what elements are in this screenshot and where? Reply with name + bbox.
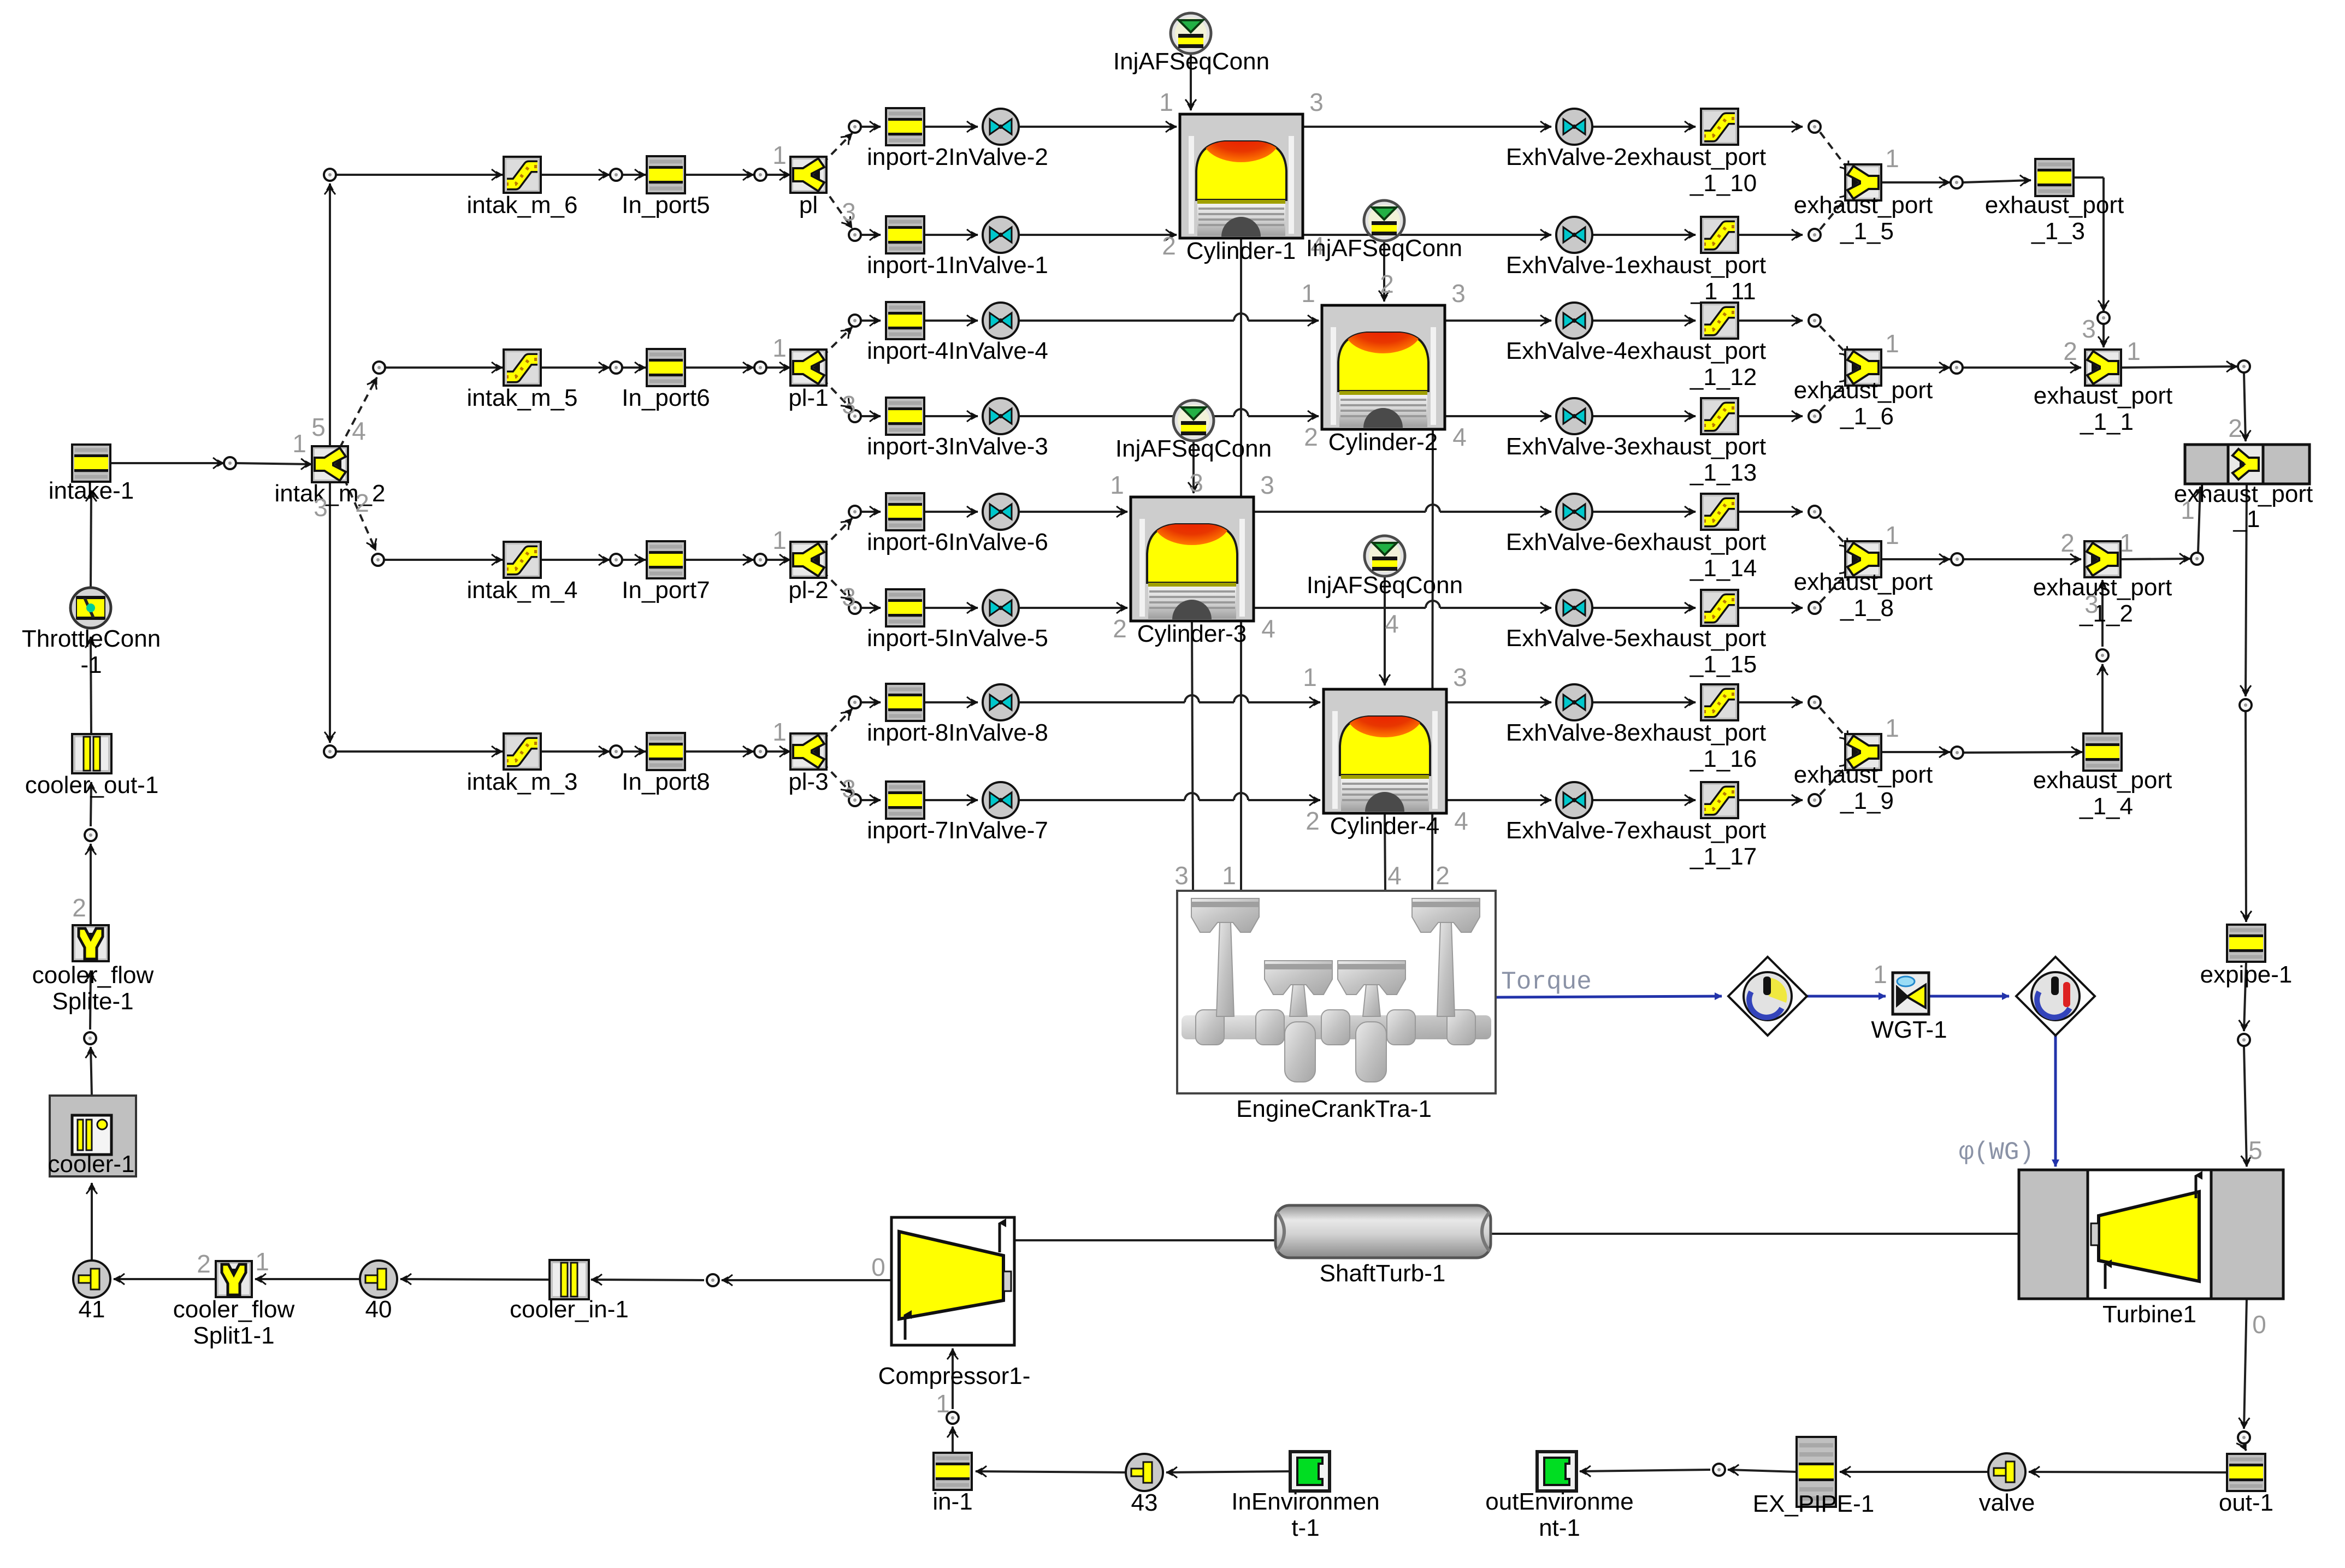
svg-text:exhaust_port: exhaust_port	[1794, 377, 1933, 404]
port number 1 exhaust_port_1_9	[1885, 714, 1899, 742]
wire InValve-6 to Cylinder-3	[1019, 511, 1127, 513]
svg-text:Splite-1: Splite-1	[52, 988, 133, 1015]
valve ExhValve-5	[1506, 590, 1766, 652]
wire node to Y top	[1820, 517, 1851, 549]
wire node to Y top	[1820, 708, 1851, 742]
wire node to In_port8	[623, 750, 646, 753]
svg-text:nt-1: nt-1	[1539, 1514, 1580, 1541]
svg-text:4: 4	[1387, 861, 1402, 890]
cylinder Cylinder-3	[1131, 497, 1254, 647]
wire ExhValve-1 to exhaust_port_1_11	[1592, 234, 1696, 236]
port number 3 exhaust_port_1_1	[2082, 315, 2096, 343]
injector InjAFSeqConn-4	[1307, 536, 1463, 638]
svg-text:3: 3	[1309, 88, 1324, 116]
svg-text:0: 0	[871, 1253, 885, 1281]
valve InValve-1	[983, 217, 1019, 253]
wire intak_m_3 to node	[541, 750, 610, 753]
wire Cylinder-4 to ExhValve-8	[1446, 701, 1551, 703]
wire inport-2 to InValve-2	[924, 126, 978, 128]
node row2 start	[373, 362, 385, 374]
wire 43 to in-1	[976, 1471, 1126, 1472]
svg-text:_1_14: _1_14	[1690, 555, 1757, 582]
wire Cylinder-1 to ExhValve-2	[1303, 126, 1551, 128]
wire Compressor1 to ShaftTurb-1	[1014, 1239, 1278, 1241]
svg-text:3: 3	[1451, 279, 1466, 307]
pipe In_port6	[622, 349, 710, 411]
svg-text:inport-8InValve-8: inport-8InValve-8	[867, 719, 1048, 746]
node compressor inlet	[947, 1412, 959, 1424]
svg-text:EX_PIPE-1: EX_PIPE-1	[1753, 1490, 1875, 1517]
svg-text:_1_15: _1_15	[1690, 651, 1757, 678]
svg-text:1: 1	[1110, 471, 1124, 499]
svg-text:_1: _1	[2233, 506, 2260, 532]
wire node up to Compressor1	[952, 1348, 954, 1409]
label Torque	[1501, 968, 1592, 996]
pipe inport-5	[867, 589, 1048, 652]
node runner out	[1809, 696, 1821, 708]
svg-text:cooler_flow: cooler_flow	[32, 962, 154, 989]
wire Cylinder-2 to ExhValve-4	[1445, 319, 1551, 322]
plug 41	[73, 1261, 110, 1323]
wire hump mask	[1185, 798, 1199, 803]
wire pl-2 to node up	[822, 518, 852, 549]
wire node to exhaust_port_1_1 port2	[1963, 366, 2081, 369]
wire cooler-1 to node 1901	[91, 1047, 92, 1096]
port number 1 exhaust_port_1_5	[1885, 144, 1899, 173]
wire hump mask	[1234, 414, 1248, 419]
port number 0 Compressor1	[871, 1253, 885, 1281]
svg-text:In_port7: In_port7	[622, 577, 710, 603]
wire node to inport-7	[861, 799, 881, 801]
svg-text:Cylinder-3: Cylinder-3	[1137, 620, 1247, 647]
flow-split pl-1	[788, 350, 828, 411]
flow-split cooler_flowSplit1-1	[173, 1261, 295, 1349]
node runner out	[1809, 410, 1821, 422]
svg-text:ExhValve-6exhaust_port: ExhValve-6exhaust_port	[1506, 529, 1766, 555]
svg-text:intak_m_4: intak_m_4	[466, 577, 577, 603]
wire pl to node down	[822, 186, 852, 228]
wire hump mask	[1234, 318, 1248, 323]
turbine Turbine1	[2019, 1170, 2283, 1328]
wire node to Y bottom	[1820, 762, 1851, 795]
wire out-1 to valve	[2029, 1472, 2226, 1472]
flow-merge exhaust_port_1_5	[1794, 164, 1933, 245]
wire ExhValve-8 to exhaust_port_1_16	[1592, 701, 1696, 703]
bent pipe exhaust_port_1_16	[1690, 684, 1757, 772]
valve ExhValve-2	[1506, 109, 1766, 170]
svg-text:2: 2	[1436, 861, 1450, 890]
wire intak_m_6 to node	[541, 174, 610, 176]
wire pl-2 to node down	[822, 571, 852, 601]
wire jump	[1426, 505, 1440, 512]
svg-text:5: 5	[311, 413, 326, 441]
node cooler_in/compressor	[707, 1274, 719, 1286]
wire cooler_out-1 to ThrottleConn-1	[91, 637, 91, 734]
svg-text:1: 1	[936, 1389, 950, 1418]
svg-text:-1: -1	[80, 652, 102, 678]
wire hump mask	[1234, 798, 1248, 803]
svg-text:intake-1: intake-1	[49, 477, 134, 504]
pipe EX_PIPE-1	[1753, 1437, 1875, 1517]
node expipe/turbine	[2238, 1034, 2250, 1046]
wire node to exhaust_port_1_1 port3	[2102, 324, 2105, 347]
wire exhaust_port_1_13 to node	[1738, 415, 1803, 417]
node manifold b	[754, 169, 766, 181]
node runner out	[1809, 121, 1821, 133]
injector InjAFSeqConn-1	[1113, 13, 1269, 75]
wire node to inport-2	[861, 126, 881, 128]
node runner in	[849, 410, 861, 422]
port numbers Cylinder-3	[1110, 471, 1275, 643]
wire InValve-1 to Cylinder-1	[1019, 234, 1177, 236]
pipe inport-4	[867, 302, 1048, 364]
wire ExhValve-2 to exhaust_port_1_10	[1592, 126, 1696, 128]
wire In_port7 to node	[686, 559, 754, 561]
svg-text:3: 3	[1174, 861, 1189, 890]
svg-text:_1_17: _1_17	[1690, 843, 1757, 870]
svg-text:2: 2	[197, 1250, 211, 1278]
wire Splite-1 to node 1529	[90, 844, 92, 925]
node Y5 out	[1951, 176, 1963, 188]
svg-text:ThrottleConn: ThrottleConn	[22, 625, 161, 652]
svg-text:1: 1	[255, 1247, 269, 1276]
bent pipe exhaust_port_1_13	[1690, 398, 1757, 486]
svg-text:ExhValve-4exhaust_port: ExhValve-4exhaust_port	[1506, 338, 1766, 364]
svg-text:4: 4	[1385, 610, 1399, 638]
wire node to In_port6	[623, 366, 646, 369]
svg-text:InjAFSeqConn: InjAFSeqConn	[1115, 435, 1272, 462]
svg-text:InEnvironmen: InEnvironmen	[1231, 1488, 1379, 1515]
svg-text:2: 2	[355, 489, 369, 517]
wire Torque blue	[1496, 996, 1722, 997]
wire node to pl-3	[767, 750, 790, 753]
svg-text:1: 1	[2181, 496, 2195, 524]
svg-text:inport-1InValve-1: inport-1InValve-1	[867, 252, 1048, 279]
svg-text:3: 3	[842, 774, 856, 803]
throttle ThrottleConn-1	[22, 588, 161, 678]
wire intak_m_5 to node	[541, 366, 610, 369]
wire Cylinder-2 to crank port2	[1432, 429, 1433, 891]
port number 1 exhaust_port_1_8	[1885, 521, 1899, 549]
wire node 1529 to cooler_out-1	[91, 782, 91, 826]
wire node to pl-2	[767, 559, 790, 561]
wire intak_m_2 to node row2	[340, 377, 377, 448]
svg-text:1: 1	[772, 334, 787, 362]
port number 5 Turbine1	[2248, 1136, 2263, 1164]
node runner out	[1809, 602, 1821, 614]
svg-text:_1_3: _1_3	[2031, 218, 2085, 245]
svg-text:ExhValve-3exhaust_port: ExhValve-3exhaust_port	[1506, 433, 1766, 460]
wire exhaust_port_1_2 to node	[2120, 559, 2190, 559]
bent pipe exhaust_port_1_12	[1690, 303, 1757, 390]
node runner out	[1809, 794, 1821, 806]
wire EX_PIPE-1 to node	[1728, 1470, 1797, 1472]
svg-text:ExhValve-8exhaust_port: ExhValve-8exhaust_port	[1506, 719, 1766, 746]
svg-text:intak_m_3: intak_m_3	[466, 768, 577, 795]
wire ExhValve-6 to exhaust_port_1_14	[1592, 511, 1696, 513]
wire exhaust_port_1 down to node	[2246, 483, 2247, 696]
svg-text:valve: valve	[1979, 1489, 2035, 1516]
svg-text:3: 3	[314, 493, 328, 522]
wire Y to node out	[1881, 366, 1950, 369]
pipe exhaust_port_1_4	[2033, 733, 2172, 820]
wire ExhValve-3 to exhaust_port_1_13	[1592, 415, 1696, 417]
node manifold b	[754, 362, 766, 374]
wire Y to node out	[1881, 558, 1950, 560]
node exhaust down	[2240, 699, 2252, 711]
injector InjAFSeqConn-3	[1115, 400, 1272, 497]
node manifold a	[610, 554, 622, 566]
wire node 421 to intak_m_2	[236, 463, 312, 464]
valve ExhValve-7	[1506, 782, 1766, 844]
pipe inport-6	[867, 493, 1048, 555]
pipe In_port8	[622, 733, 710, 795]
wire hump mask	[1234, 700, 1248, 705]
wastegate WGT-1	[1871, 973, 1947, 1043]
wire Compressor1 to node	[722, 1279, 891, 1281]
label port 2 Splite-1	[72, 894, 86, 922]
node exhaust_1_2 out	[2191, 553, 2203, 565]
wire Y to node out	[1881, 181, 1950, 184]
svg-text:inport-5InValve-5: inport-5InValve-5	[867, 625, 1048, 652]
wire node to Y bottom	[1820, 377, 1851, 411]
svg-text:1: 1	[1873, 960, 1887, 989]
node turbine out	[2238, 1431, 2250, 1443]
port numbers pl	[772, 141, 856, 226]
wire intak_m_2 to node row3	[344, 478, 376, 551]
wire In_port8 to node	[686, 750, 754, 753]
port number 1 WGT-1	[1873, 960, 1887, 989]
svg-text:4: 4	[1454, 807, 1468, 835]
svg-text:2: 2	[72, 894, 86, 922]
cylinder Cylinder-2	[1322, 305, 1445, 455]
wire jump	[1185, 793, 1199, 800]
svg-text:3: 3	[1453, 663, 1467, 691]
wire node to exhaust_port_1_2 port2	[1964, 558, 2081, 560]
wire Cylinder-4 to ExhValve-7	[1446, 799, 1551, 801]
wire jump	[1426, 601, 1440, 608]
svg-text:out-1: out-1	[2219, 1489, 2273, 1516]
bent pipe intak_m_6	[466, 157, 577, 218]
wire inport-6 to InValve-6	[924, 511, 978, 513]
wire InjAFSeqConn-1 to Cylinder-1	[1190, 54, 1192, 110]
svg-text:2: 2	[1113, 614, 1127, 643]
wire node to intak_m_3	[336, 750, 503, 753]
node runner in	[849, 506, 861, 518]
node Y9 out	[1951, 747, 1963, 759]
svg-text:In_port5: In_port5	[622, 192, 710, 218]
svg-text:exhaust_port: exhaust_port	[1794, 761, 1933, 788]
node intake-1/intak_m_2	[224, 457, 236, 469]
node cooler-1 top	[84, 1032, 96, 1044]
wire node to In_port7	[623, 559, 646, 561]
svg-text:3: 3	[1189, 469, 1203, 497]
svg-text:exhaust_port: exhaust_port	[1985, 192, 2124, 218]
port numbers pl-3	[772, 718, 856, 803]
svg-text:4: 4	[352, 417, 366, 445]
svg-text:_1_16: _1_16	[1690, 745, 1757, 772]
svg-text:_1_4: _1_4	[2079, 793, 2133, 820]
svg-text:Cylinder-2: Cylinder-2	[1328, 429, 1438, 455]
wire InjAFSeqConn-3 to Cylinder-3	[1192, 441, 1195, 493]
wire pl-1 to node down	[822, 378, 852, 410]
pipe in-1	[932, 1453, 972, 1515]
wire node to out-1	[2244, 1446, 2246, 1451]
pipe intake-1	[49, 445, 134, 504]
svg-text:3: 3	[2082, 315, 2096, 343]
port number 2 exhaust_port_1	[2228, 414, 2242, 442]
wire node to inport-6	[861, 511, 881, 513]
node runner out	[1809, 229, 1821, 241]
svg-text:1: 1	[2119, 529, 2134, 557]
svg-text:4: 4	[1452, 423, 1467, 451]
wire exhaust_port_1_11 to node	[1738, 234, 1803, 236]
pipe inport-8	[867, 684, 1048, 746]
wire hump mask	[1426, 606, 1440, 611]
wire Cylinder-3 to ExhValve-5	[1254, 607, 1551, 609]
cooler cooler-1	[48, 1096, 136, 1178]
plug valve	[1979, 1453, 2035, 1516]
svg-text:cooler_out-1: cooler_out-1	[25, 772, 159, 798]
environment outEnvironment-1	[1485, 1452, 1633, 1541]
plug 40	[360, 1261, 397, 1323]
svg-text:φ(WG): φ(WG)	[1959, 1138, 2034, 1167]
wire hump mask	[1185, 700, 1199, 705]
svg-text:exhaust_port: exhaust_port	[2033, 574, 2172, 601]
gauge diamond 1	[1728, 957, 1807, 1036]
pipe inport-2	[867, 108, 1048, 170]
svg-text:pl-1: pl-1	[788, 384, 828, 411]
wire cooler_flowSplit1-1 to 41	[114, 1278, 216, 1280]
port numbers EngineCrankTra-1	[1174, 861, 1450, 890]
bent pipe exhaust_port_1_15	[1690, 590, 1757, 678]
wire node 1901 to Splite-1	[90, 971, 91, 1029]
svg-text:Torque: Torque	[1501, 968, 1592, 996]
svg-text:pl: pl	[799, 192, 818, 218]
wire InValve-3 to Cylinder-2	[1019, 415, 1319, 417]
flow-merge exhaust_port_1_9	[1794, 734, 1933, 814]
svg-text:1: 1	[1303, 663, 1317, 691]
svg-text:_1_10: _1_10	[1690, 170, 1757, 197]
wire Y to node out	[1881, 751, 1950, 753]
wire node down to expipe-1	[2246, 712, 2246, 922]
port number 1 Compressor1	[936, 1389, 950, 1418]
wire exhaust_port_1_16 to node	[1738, 701, 1803, 703]
wire exhaust_port_1_15 to node	[1738, 607, 1803, 609]
wire InValve-2 to Cylinder-1	[1019, 126, 1177, 128]
injector InjAFSeqConn-2	[1306, 200, 1462, 298]
flow-merge exhaust_port_1_1	[2034, 350, 2172, 435]
svg-text:_1_12: _1_12	[1690, 364, 1757, 390]
pipe out-1	[2219, 1454, 2273, 1516]
wire inport-8 to InValve-8	[924, 701, 978, 703]
wire exhaust_port_1_4 up to node	[2101, 664, 2104, 733]
valve ExhValve-4	[1506, 303, 1766, 364]
svg-text:exhaust_port: exhaust_port	[2174, 481, 2313, 507]
wire jump	[1234, 313, 1248, 321]
svg-text:ExhValve-1exhaust_port: ExhValve-1exhaust_port	[1506, 252, 1766, 279]
wire InEnvironment to 43	[1166, 1471, 1290, 1472]
node manifold a	[610, 362, 622, 374]
svg-text:Split1-1: Split1-1	[193, 1322, 274, 1349]
svg-text:_1_5: _1_5	[1840, 218, 1894, 245]
cylinder Cylinder-4	[1324, 689, 1446, 839]
bent pipe exhaust_port_1_17	[1690, 782, 1757, 870]
wire node to Turbine1 port5	[2244, 1046, 2247, 1167]
wire expipe-1 to node	[2244, 962, 2246, 1031]
wire ExhValve-5 to exhaust_port_1_15	[1592, 607, 1696, 609]
node row1 start	[324, 169, 336, 181]
valve ExhValve-6	[1506, 494, 1766, 555]
svg-text:intak_m_5: intak_m_5	[466, 384, 577, 411]
node runner in	[849, 121, 861, 133]
wire node to Y bottom	[1820, 192, 1851, 229]
wire node to cooler_in-1	[591, 1280, 704, 1280]
port numbers pl-1	[772, 334, 856, 419]
cooler pipe cooler_out-1	[25, 734, 159, 798]
wire ShaftTurb-1 to Turbine1	[1488, 1233, 2019, 1235]
svg-text:outEnvironme: outEnvironme	[1485, 1488, 1633, 1515]
node runner out	[1809, 315, 1821, 327]
svg-text:2: 2	[2063, 337, 2077, 365]
wire node to intak_m_6	[336, 174, 503, 176]
wire inport-1 to InValve-1	[924, 234, 978, 236]
port numbers pl-2	[772, 526, 856, 611]
wire pl-1 to node up	[822, 327, 852, 357]
wire In_port5 to node	[686, 174, 754, 176]
wire 40 to cooler_flowSplit1-1	[255, 1278, 360, 1280]
svg-text:1: 1	[1885, 329, 1899, 358]
svg-text:41: 41	[79, 1296, 105, 1323]
wire exhaust_port_1_1 to node	[2122, 366, 2237, 368]
port number 1 exhaust_port_1_6	[1885, 329, 1899, 358]
wire node up to exhaust_port_1 port1	[2198, 487, 2200, 552]
node Y8 out	[1951, 553, 1963, 565]
bent pipe intak_m_3	[466, 733, 577, 795]
svg-text:exhaust_port: exhaust_port	[1794, 192, 1933, 218]
compressor Compressor1-	[878, 1217, 1031, 1389]
port numbers Cylinder-1	[1159, 88, 1325, 260]
svg-text:0: 0	[2252, 1310, 2266, 1339]
wire node to pl	[767, 174, 790, 176]
wire node to Y top	[1820, 326, 1851, 358]
svg-text:1: 1	[1301, 279, 1315, 307]
node manifold b	[754, 554, 766, 566]
cooler pipe cooler_in-1	[510, 1260, 629, 1323]
wire InValve-4 to Cylinder-2	[1019, 319, 1319, 322]
wire node to intak_m_4	[385, 559, 503, 561]
svg-text:inport-2InValve-2: inport-2InValve-2	[867, 144, 1048, 170]
wire node to outEnvironment	[1580, 1470, 1710, 1471]
crank train EngineCrankTra-1	[1177, 891, 1496, 1122]
svg-text:1: 1	[1885, 521, 1899, 549]
wire exhaust_port_1_3 down to node	[2073, 177, 2104, 311]
svg-text:1: 1	[1222, 861, 1236, 890]
wire node up to exhaust_port_1_2 port3	[2101, 580, 2104, 647]
svg-text:in-1: in-1	[932, 1488, 972, 1515]
bent pipe exhaust_port_1_10	[1690, 109, 1757, 197]
wire inport-5 to InValve-5	[924, 607, 978, 609]
valve InValve-2	[983, 109, 1019, 145]
wire exhaust_port_1_17 to node	[1738, 799, 1803, 801]
svg-text:inport-4InValve-4: inport-4InValve-4	[867, 338, 1048, 364]
flow-split cooler_flowSplite-1	[32, 925, 154, 1015]
bent pipe exhaust_port_1_11	[1690, 217, 1756, 305]
wire node to inport-3	[861, 415, 881, 417]
wire Cylinder-4 to crank port4	[1385, 813, 1385, 891]
gauge diamond 2	[2016, 957, 2095, 1036]
svg-text:ExhValve-5exhaust_port: ExhValve-5exhaust_port	[1506, 625, 1766, 652]
